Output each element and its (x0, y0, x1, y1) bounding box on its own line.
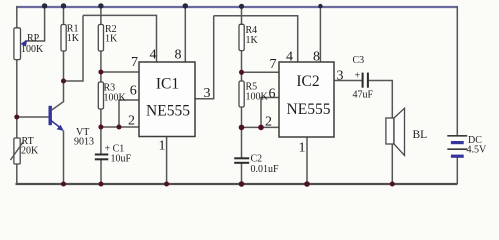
svg-text:3: 3 (204, 86, 211, 101)
svg-text:3: 3 (337, 69, 344, 84)
svg-text:4: 4 (150, 48, 157, 63)
svg-text:C2: C2 (251, 154, 263, 165)
svg-text:6: 6 (130, 84, 137, 99)
svg-text:6: 6 (269, 87, 276, 102)
svg-text:IC2: IC2 (296, 73, 319, 90)
svg-text:1K: 1K (105, 34, 118, 45)
svg-text:9013: 9013 (74, 137, 94, 148)
svg-text:1K: 1K (67, 33, 80, 44)
svg-text:1: 1 (299, 141, 306, 156)
svg-text:0.01uF: 0.01uF (251, 164, 280, 175)
svg-text:+: + (355, 71, 361, 82)
svg-text:7: 7 (270, 57, 277, 72)
svg-text:2: 2 (128, 114, 135, 129)
svg-text:20K: 20K (21, 146, 39, 157)
svg-text:BL: BL (413, 129, 428, 141)
svg-text:IC1: IC1 (156, 76, 179, 93)
svg-text:8: 8 (175, 48, 182, 63)
svg-text:C3: C3 (353, 55, 365, 66)
svg-text:100K: 100K (21, 44, 44, 55)
svg-text:100K: 100K (104, 93, 127, 104)
svg-text:NE555: NE555 (146, 102, 190, 119)
svg-text:1K: 1K (246, 35, 259, 46)
svg-text:47uF: 47uF (353, 90, 374, 101)
svg-text:4.5V: 4.5V (467, 145, 488, 156)
svg-text:10uF: 10uF (111, 154, 132, 165)
svg-text:100K: 100K (246, 92, 269, 103)
svg-text:7: 7 (131, 55, 138, 70)
svg-text:NE555: NE555 (287, 101, 331, 118)
svg-text:2: 2 (265, 115, 272, 130)
svg-text:1: 1 (159, 139, 166, 154)
svg-text:RP: RP (27, 33, 40, 44)
svg-text:4: 4 (286, 50, 293, 65)
svg-text:8: 8 (313, 50, 320, 65)
